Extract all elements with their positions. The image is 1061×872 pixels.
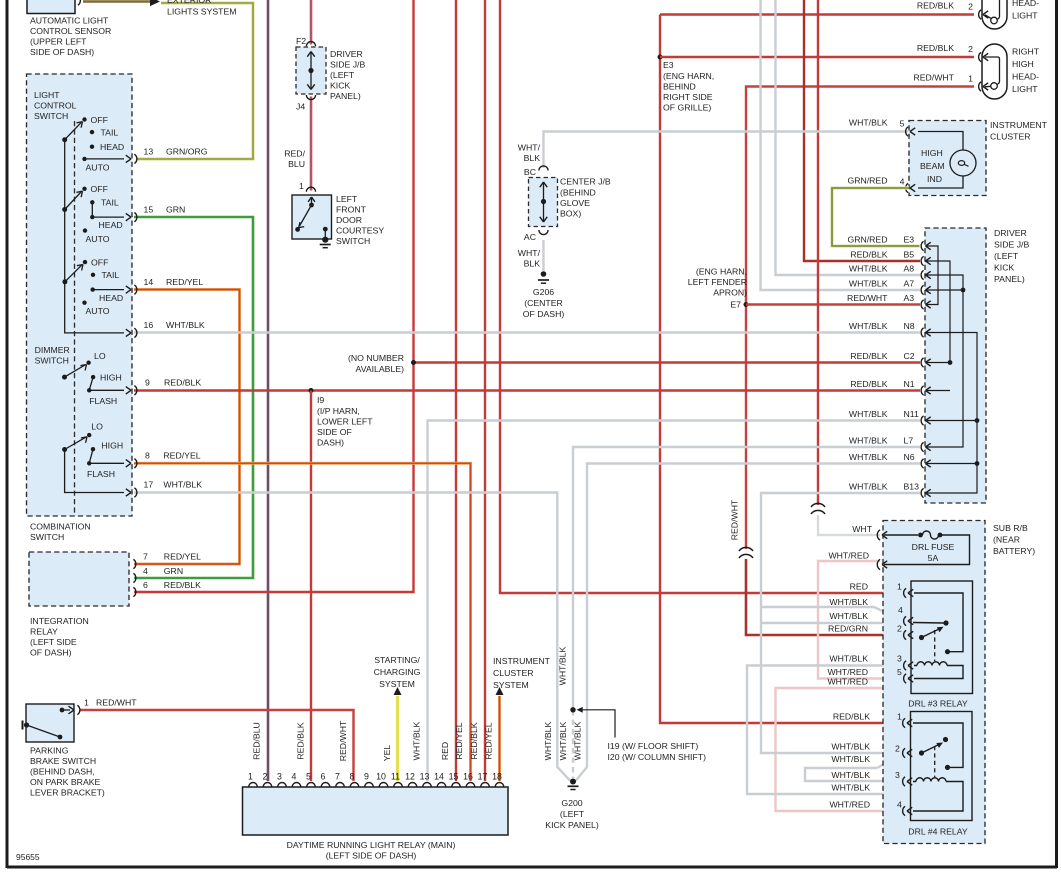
svg-text:DASH): DASH) [317,438,344,448]
light control switch common bus to pin 16 [65,140,124,333]
svg-text:WHT/RED: WHT/RED [828,551,869,561]
svg-text:RED/BLK: RED/BLK [850,351,887,361]
svg-text:RELAY: RELAY [30,627,58,637]
svg-text:10: 10 [376,772,386,782]
svg-text:WHT/BLK: WHT/BLK [831,783,870,793]
svg-text:N8: N8 [904,321,915,331]
svg-text:KICK: KICK [330,81,350,91]
svg-text:BLU: BLU [288,159,305,169]
DRL #3 relay internal contacts [914,593,963,652]
integration relay pin 6 [133,587,135,596]
svg-text:4: 4 [897,800,902,810]
driver side J/B pin A3 [921,300,923,309]
wire RED/BLK from E3 down to DRL#4 relay pin 1 [660,15,903,724]
wire RED/BLU top edge to F2 [310,0,313,45]
svg-text:RED/WHT: RED/WHT [847,293,888,303]
svg-text:GRN/ORG: GRN/ORG [166,146,208,156]
svg-text:(UPPER LEFT: (UPPER LEFT [30,37,87,47]
svg-text:2: 2 [897,624,902,634]
svg-text:LIGHT: LIGHT [1012,11,1038,21]
svg-text:A8: A8 [904,263,915,273]
svg-text:(ENG HARN,: (ENG HARN, [663,71,714,81]
svg-text:HIGH: HIGH [100,373,122,383]
svg-text:WHT/RED: WHT/RED [827,677,868,687]
svg-text:AUTO: AUTO [86,163,110,173]
svg-text:HEAD: HEAD [100,142,124,152]
svg-text:AC: AC [524,232,536,242]
svg-text:DRL #3 RELAY: DRL #3 RELAY [908,699,968,709]
svg-text:14: 14 [434,772,444,782]
svg-text:WHT/BLK: WHT/BLK [412,721,422,760]
svg-text:17: 17 [478,772,488,782]
svg-text:HEAD: HEAD [99,220,123,230]
svg-text:HEAD: HEAD [99,293,123,303]
break symbol on x=818 wire above DRL fuse [811,503,825,514]
svg-text:RED/WHT: RED/WHT [338,720,348,761]
svg-text:RIGHT SIDE: RIGHT SIDE [663,92,713,102]
svg-text:INSTRUMENT: INSTRUMENT [493,656,551,666]
high beam indicator bulb [918,132,963,151]
svg-text:OF GRILLE): OF GRILLE) [663,103,711,113]
svg-text:FLASH: FLASH [87,469,115,479]
parking brake switch [26,704,74,742]
ground G200 dot and symbol [570,779,576,785]
svg-text:7: 7 [143,552,148,562]
svg-text:LO: LO [91,422,103,432]
wire RED/BLK trunk integration relay pin 6 / C2 node to top edge [134,0,414,592]
wire RED/YEL dimmer pin 8 to relay main pin 16 [134,463,471,781]
driver side J/B internal bus B5-C2 [926,261,950,363]
svg-text:12: 12 [405,772,415,782]
svg-text:COURTESY: COURTESY [336,226,384,236]
svg-text:2: 2 [263,772,268,782]
wire RED/BLK no-number node to driver side J/B C2 [414,361,921,363]
svg-text:4: 4 [143,566,148,576]
wire RED trunk to relay main pin 15 [455,0,457,781]
svg-text:AUTO: AUTO [86,234,110,244]
svg-text:RED/BLK: RED/BLK [917,1,954,11]
svg-text:WHT/BLK: WHT/BLK [558,646,568,685]
svg-text:2: 2 [968,44,973,54]
combination switch inner dashed divider [74,121,76,516]
wire WHT from break into DRL fuse [818,515,880,535]
wire RED/WHT from E7 to driver side J/B pin A3 [746,303,920,305]
svg-text:RED/YEL: RED/YEL [166,277,203,287]
svg-text:DRL #4 RELAY: DRL #4 RELAY [908,827,968,837]
svg-text:RED/BLK: RED/BLK [164,580,201,590]
svg-text:I19 (W/ FLOOR SHIFT): I19 (W/ FLOOR SHIFT) [608,741,699,751]
driver side J/B dashed box [925,228,986,503]
svg-text:WHT/BLK: WHT/BLK [831,754,870,764]
svg-text:3: 3 [897,654,902,664]
svg-text:DRIVER: DRIVER [994,228,1027,238]
svg-text:ON PARK BRAKE: ON PARK BRAKE [30,777,101,787]
wire RED/BLU trunk relay main pin 2 to top edge [267,0,270,781]
svg-text:(LEFT: (LEFT [994,251,1019,261]
svg-text:6: 6 [143,580,148,590]
wire RED/BLK from I9 down to relay main pin 5 [310,391,312,782]
svg-text:WHT/BLK: WHT/BLK [829,654,868,664]
driver side J/B internal bus N8-N11-N6-B13 [926,333,977,494]
wire WHT/BLK riser to driver side J/B pin A8 [776,0,921,275]
wire WHT/BLK pair into DRL#3 relay pin 4 [761,607,903,621]
svg-text:WHT/BLK: WHT/BLK [849,118,888,128]
driver side J/B pin B5 [921,256,923,265]
svg-text:WHT/BLK: WHT/BLK [573,721,583,760]
svg-text:15: 15 [144,205,154,215]
svg-text:LO: LO [94,351,106,361]
svg-text:BRAKE SWITCH: BRAKE SWITCH [30,756,96,766]
svg-text:(BEHIND: (BEHIND [560,188,596,198]
page border frame [6,0,9,868]
svg-text:WHT/BLK: WHT/BLK [543,721,553,760]
wire RED/YEL trunk pin 14 to integration relay pin 7 [134,290,240,565]
svg-text:BC: BC [524,167,536,177]
svg-text:(CENTER: (CENTER [524,298,563,308]
svg-text:BLK: BLK [524,259,541,269]
svg-text:WHT/BLK: WHT/BLK [831,742,870,752]
svg-text:N6: N6 [904,452,915,462]
svg-text:E3: E3 [904,234,915,244]
svg-text:LIGHT: LIGHT [1012,84,1038,94]
wire RED trunk to DRL#3 relay pin 1 [500,0,903,593]
light control switch section 3 (pin 14) [62,279,67,284]
wire RED/BLK riser to driver side J/B pin B5 [804,0,920,261]
svg-text:WHT/BLK: WHT/BLK [849,452,888,462]
svg-text:1: 1 [897,712,902,722]
wire WHT/RED from DRL fuse to DRL#3 relay pin 5 [818,561,903,679]
svg-text:G200: G200 [561,798,582,808]
svg-text:16: 16 [463,772,473,782]
svg-text:(LEFT SIDE: (LEFT SIDE [30,637,77,647]
svg-text:1: 1 [299,181,304,191]
svg-text:13: 13 [144,146,154,156]
node E7 junction dot [744,302,749,307]
svg-text:KICK: KICK [994,263,1014,273]
svg-text:OFF: OFF [91,115,108,125]
svg-text:RIGHT: RIGHT [1012,47,1040,57]
svg-text:3: 3 [277,772,282,782]
driver side J/B internal bus A8-A7-L7 [926,275,963,447]
DRL #4 relay inner box [911,712,973,821]
svg-text:INSTRUMENT: INSTRUMENT [990,120,1048,130]
svg-text:9: 9 [145,378,150,388]
svg-text:SWITCH: SWITCH [336,236,370,246]
svg-text:CONTROL: CONTROL [34,101,77,111]
svg-text:RED/WHT: RED/WHT [730,499,740,540]
node E3 junction dot [658,55,663,60]
svg-text:WHT/BLK: WHT/BLK [849,278,888,288]
svg-text:CENTER J/B: CENTER J/B [560,177,611,187]
svg-text:RED/BLK: RED/BLK [469,722,479,759]
svg-text:LEFT FENDER: LEFT FENDER [688,277,747,287]
svg-text:HEAD-: HEAD- [1012,0,1039,8]
arrow to starting/charging system [394,687,402,695]
wire WHT/BLK driver side J/B N6 to ground G200 [576,464,921,782]
ground G206 [541,271,547,277]
svg-text:WHT/BLK: WHT/BLK [829,597,868,607]
svg-text:1: 1 [84,698,89,708]
svg-text:1: 1 [897,582,902,592]
svg-text:AVAILABLE): AVAILABLE) [356,364,405,374]
svg-text:TAIL: TAIL [101,198,119,208]
wire RED/GRN from break to DRL#3 relay pin 2 [746,559,903,635]
svg-text:RED/WHT: RED/WHT [913,73,954,83]
svg-text:DRL FUSE: DRL FUSE [912,542,955,552]
svg-text:4: 4 [898,605,903,615]
svg-text:A3: A3 [904,293,915,303]
svg-text:15: 15 [449,772,459,782]
svg-text:RED: RED [850,582,868,592]
svg-text:OFF: OFF [91,258,108,268]
dimmer switch section 1 (pin 9) [62,375,67,380]
driver side J/B pin C2 [921,358,923,367]
svg-text:DIMMER: DIMMER [35,345,70,355]
break symbol on RED/WHT at E7 riser [739,547,753,558]
svg-text:2: 2 [968,2,973,12]
svg-text:WHT: WHT [852,524,872,534]
svg-text:IND: IND [927,174,942,184]
svg-text:DAYTIME RUNNING LIGHT RELAY (: DAYTIME RUNNING LIGHT RELAY (MAIN) [287,840,456,850]
svg-text:DOOR: DOOR [336,215,362,225]
svg-text:11: 11 [391,772,400,782]
svg-text:5: 5 [897,667,902,677]
driver side J/B internal bus E3-A3 [926,246,938,305]
wire GRN/ORG trunk from light control switch pin 13 to top [137,3,253,159]
wire RED/YEL relay main pin 18 to instrument cluster system [498,696,501,781]
wire RED/BLK dimmer pin 9 through I9 to driver side J/B N1 [134,389,920,391]
wire YEL relay main pin 11 to starting/charging system [396,696,399,781]
wire WHT/RED DRL#3 pin 5 to DRL#4 relay pin 4 [776,688,904,811]
svg-text:RED/BLU: RED/BLU [252,722,262,760]
driver side J/B pin B13 [921,488,923,497]
svg-text:9: 9 [364,772,369,782]
wire GRN trunk pin 15 to integration relay pin 4 [134,217,253,578]
svg-text:SWITCH: SWITCH [30,532,64,542]
DRL #4 relay internal contacts [913,723,963,767]
svg-text:LEVER BRACKET): LEVER BRACKET) [30,788,105,798]
svg-text:WHT/RED: WHT/RED [827,667,868,677]
svg-text:13: 13 [420,772,430,782]
svg-text:EXTERIOR: EXTERIOR [167,0,211,5]
svg-text:HEAD-: HEAD- [1012,72,1039,82]
svg-text:WHT/BLK: WHT/BLK [849,409,888,419]
svg-text:B5: B5 [904,249,915,259]
svg-text:RED/WHT: RED/WHT [96,698,137,708]
arrow to instrument cluster system [496,687,504,695]
arrow to exterior lights system [150,0,160,6]
wire WHT/BLK 5 from instrument cluster to center J/B BC [544,132,909,169]
wire RED/WHT parking brake switch to relay main pin 8 [80,710,354,781]
svg-text:PANEL): PANEL) [330,91,361,101]
svg-text:OF DASH): OF DASH) [30,648,72,658]
daytime running light relay main box [243,787,509,835]
svg-text:1: 1 [248,772,253,782]
svg-text:7: 7 [335,772,340,782]
svg-text:RED: RED [440,742,450,760]
svg-text:AUTO: AUTO [86,306,110,316]
svg-text:LEFT: LEFT [336,194,358,204]
svg-text:CLUSTER: CLUSTER [990,132,1031,142]
svg-text:PARKING: PARKING [30,746,69,756]
svg-text:OFF: OFF [91,184,108,194]
driver side J/B connector F2-J4 [296,47,326,94]
svg-text:WHT/BLK: WHT/BLK [849,435,888,445]
svg-text:WHT/BLK: WHT/BLK [163,480,202,490]
wire WHT/BLK center J/B AC to ground G206 [542,240,544,271]
svg-text:INTEGRATION: INTEGRATION [30,616,89,626]
integration relay pin 4 [133,573,135,582]
svg-text:14: 14 [144,277,154,287]
svg-text:SIDE OF DASH): SIDE OF DASH) [30,47,94,57]
svg-text:SIDE J/B: SIDE J/B [994,240,1029,250]
svg-text:N1: N1 [904,379,915,389]
svg-text:SIDE OF: SIDE OF [317,427,352,437]
light control switch section 2 (pin 15) [62,207,67,212]
svg-text:COMBINATION: COMBINATION [30,522,91,532]
svg-text:4: 4 [900,177,905,187]
dimmer switch common bus to pin 17 [65,450,124,493]
svg-text:STARTING/: STARTING/ [374,655,420,665]
svg-text:WHT/BLK: WHT/BLK [849,321,888,331]
left high headlight (cut at top) [982,0,1007,29]
svg-text:RED/BLK: RED/BLK [296,722,306,759]
svg-text:GRN: GRN [166,205,185,215]
wire RED/BLK 2 from E3 to right high headlight [660,56,974,58]
svg-text:YEL: YEL [382,745,392,762]
svg-text:95655: 95655 [16,852,40,862]
svg-text:F2: F2 [296,36,306,46]
svg-text:L7: L7 [904,435,914,445]
driver side J/B pin N8 [921,328,923,337]
svg-text:RED/YEL: RED/YEL [164,552,201,562]
wire WHT/BLK middle G200 riser lower dashed part [572,710,574,778]
svg-text:KICK PANEL): KICK PANEL) [545,820,599,830]
svg-text:WHT/: WHT/ [518,248,541,258]
svg-text:E7: E7 [730,300,741,310]
svg-text:I20 (W/ COLUMN SHIFT): I20 (W/ COLUMN SHIFT) [608,752,707,762]
wire WHT/BLK riser to driver side J/B pin A7 [761,0,921,290]
svg-text:1: 1 [968,74,973,84]
driver side J/B pin E3 [921,241,923,250]
svg-text:17: 17 [144,480,154,490]
svg-text:WHT/BLK: WHT/BLK [849,263,888,273]
wire RED/WHT 1 from right high headlight down to E7 [746,87,974,550]
combination switch dashed box [27,74,133,516]
svg-text:FLASH: FLASH [89,396,117,406]
svg-text:LIGHT: LIGHT [34,90,60,100]
svg-text:2: 2 [895,744,900,754]
integration relay dashed box [29,552,129,606]
automatic light control sensor box [27,0,75,14]
svg-text:6: 6 [321,772,326,782]
svg-text:16: 16 [144,320,154,330]
DRL #3 relay coil [914,662,963,679]
svg-text:RED/BLK: RED/BLK [917,43,954,53]
svg-text:A7: A7 [904,278,915,288]
svg-text:WHT/BLK: WHT/BLK [829,611,868,621]
wire WHT/BLK combination pin 16 to driver side J/B N8 [134,331,920,333]
svg-text:N11: N11 [904,409,919,419]
svg-text:(NEAR: (NEAR [993,535,1020,545]
svg-text:RED/YEL: RED/YEL [163,450,200,460]
wire WHT/BLK driver side J/B B13 to DRL#4 relay pin 2 [761,493,920,753]
wire WHT/BLK dimmer pin 17 to ground G200 [134,493,571,782]
svg-text:HIGH: HIGH [1012,59,1034,69]
svg-text:DRIVER: DRIVER [330,49,363,59]
light control switch section 1 (pin 13) [62,137,67,142]
DRL #4 relay pin connectors [903,718,905,727]
wire GRN/RED cluster pin 4 to driver side J/B E3 [832,188,920,246]
svg-text:FRONT: FRONT [336,205,367,215]
svg-text:5: 5 [900,119,905,129]
svg-text:OF DASH): OF DASH) [523,309,565,319]
svg-text:BOX): BOX) [560,209,581,219]
svg-text:RED/: RED/ [284,149,305,159]
wire RED/BLK trunk to relay main pin 17 [484,0,486,781]
svg-text:RED/BLK: RED/BLK [164,378,201,388]
DRL FUSE 5A [877,530,880,540]
driver side J/B pin N6 [921,459,923,468]
svg-text:TAIL: TAIL [101,128,119,138]
wire RED/BLK 2 to left high headlight [660,13,974,15]
DRL #4 relay coil [913,778,963,811]
svg-text:RED/GRN: RED/GRN [828,624,868,634]
svg-text:B13: B13 [904,481,920,491]
svg-text:SIDE J/B: SIDE J/B [330,60,365,70]
svg-text:TAIL: TAIL [102,270,120,280]
svg-text:WHT/BLK: WHT/BLK [849,481,888,491]
svg-text:PANEL): PANEL) [994,274,1025,284]
svg-text:(LEFT: (LEFT [560,809,585,819]
svg-text:GLOVE: GLOVE [560,198,590,208]
svg-text:WHT/BLK: WHT/BLK [558,721,568,760]
DRL #3 relay pin connectors [904,588,906,597]
svg-text:5: 5 [306,772,311,782]
svg-text:LOWER LEFT: LOWER LEFT [317,417,373,427]
wire RED/BLK riser x=818 from top to break [817,0,819,505]
svg-text:SWITCH: SWITCH [35,356,69,366]
svg-text:AUTOMATIC LIGHT: AUTOMATIC LIGHT [30,16,109,26]
right high headlight [982,44,1007,99]
svg-text:3: 3 [895,770,900,780]
svg-text:RED/YEL: RED/YEL [454,722,464,759]
svg-text:(LEFT: (LEFT [330,70,355,80]
wire RED/BLU J4 to courtesy switch [310,97,313,191]
svg-text:RED/BLK: RED/BLK [850,249,887,259]
svg-text:WHT/BLK: WHT/BLK [831,770,870,780]
svg-text:WHT/: WHT/ [518,143,541,153]
svg-text:BEHIND: BEHIND [663,82,696,92]
svg-text:BLK: BLK [524,153,541,163]
wire WHT/BLK driver side J/B L7 to ground G200 [573,447,920,710]
svg-text:(I/P HARN,: (I/P HARN, [317,406,360,416]
svg-text:J4: J4 [296,102,305,112]
svg-text:RED/BLK: RED/BLK [850,379,887,389]
DRL #3 relay inner box [911,581,973,694]
svg-text:E3: E3 [663,60,674,70]
driver side J/B pin A7 [921,285,923,294]
driver side J/B pin A8 [921,270,923,279]
instrument cluster dashed box with high beam indicator [909,121,986,196]
svg-text:GRN/RED: GRN/RED [847,176,887,186]
svg-text:HIGH: HIGH [101,440,123,450]
junction dot no-number node [411,360,416,365]
wire WHT/BLK relay main pin 13 riser to driver side J/B N11 [428,421,921,782]
svg-text:G206: G206 [533,287,554,297]
driver side J/B pin L7 [921,442,923,451]
ground at courtesy switch [320,244,331,246]
